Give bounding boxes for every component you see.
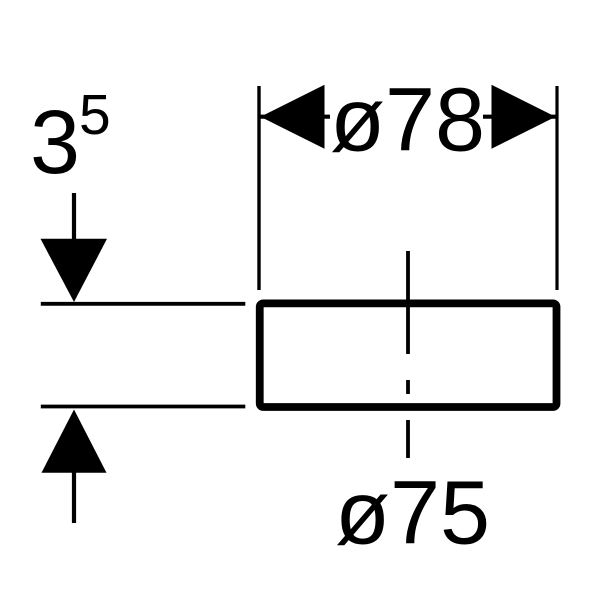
down arrow head [41,239,108,302]
dimension line left stub [261,115,331,119]
svg-text:3: 3 [30,93,80,193]
up arrow head [42,410,107,473]
right arrowhead [492,85,556,149]
left arrowhead [261,85,325,149]
svg-text:5: 5 [79,83,111,147]
centerline dash 2 [406,380,410,394]
left extension line [257,86,260,290]
bottom thickness line [41,405,246,409]
dimension text 3 superscript 5 [30,83,111,193]
down arrow stem [72,193,76,241]
svg-text:ø78: ø78 [330,71,485,171]
up arrow stem [72,472,76,523]
dimension line right stub [483,115,556,119]
svg-text:ø75: ø75 [335,464,490,564]
centerline dash 1 [406,251,410,354]
right extension line [555,86,558,290]
gasket rectangle [260,303,557,407]
centerline dash 3 [406,420,410,458]
top thickness line [41,302,246,306]
